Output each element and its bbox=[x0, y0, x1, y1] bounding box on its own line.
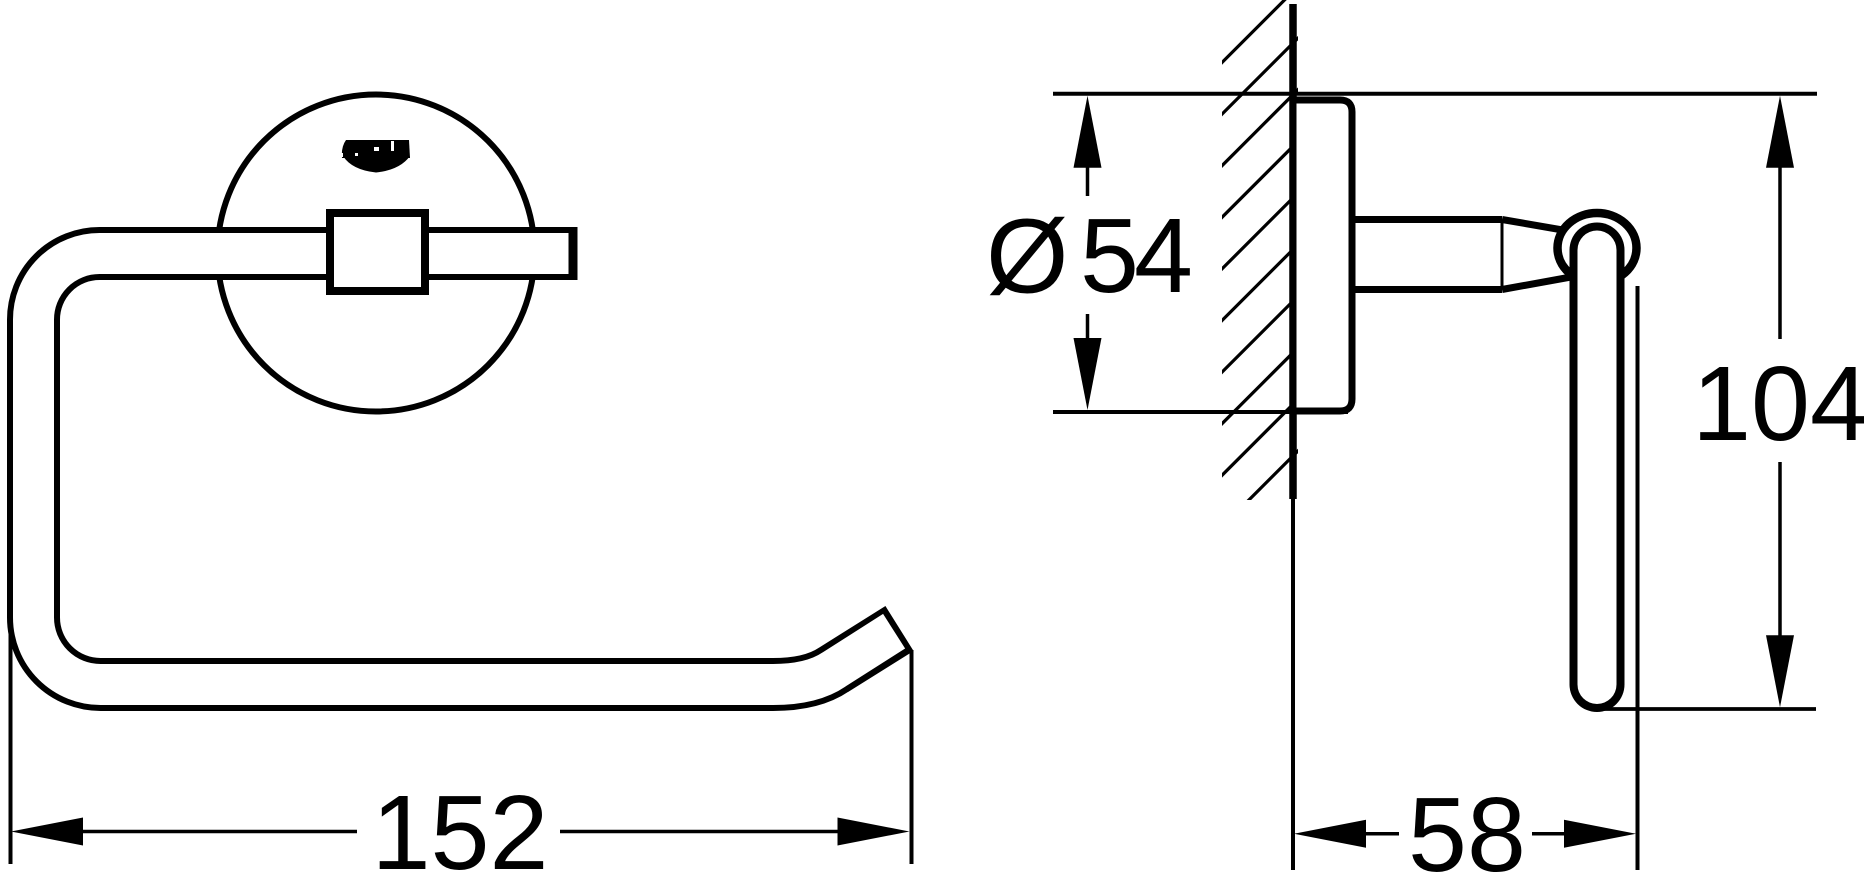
svg-text:58: 58 bbox=[1408, 776, 1526, 872]
holder arm tube white core (front view) bbox=[34, 254, 895, 685]
GROHE logo letter gaps bbox=[374, 147, 379, 151]
svg-text:104: 104 bbox=[1692, 345, 1864, 463]
dimension diameter 54: up arrowhead bbox=[1074, 96, 1102, 168]
wall extension line thin (to 58 dimension) bbox=[1291, 499, 1295, 870]
dimension 58: left shaft bbox=[1365, 832, 1399, 836]
hanging arm capsule white core (side view) bbox=[1578, 250, 1617, 685]
svg-text:54: 54 bbox=[1080, 197, 1190, 315]
dimension 152: left shaft bbox=[82, 830, 357, 834]
bottom extension line (104 dimension) bbox=[1600, 707, 1816, 711]
dimension 58: left arrowhead bbox=[1294, 820, 1366, 848]
dimension 152: left arrowhead bbox=[11, 818, 83, 846]
support post bottom edge (side view) bbox=[1352, 286, 1502, 293]
wall plate (side view) bbox=[1293, 100, 1352, 411]
cone top edge bbox=[1502, 220, 1580, 234]
dimension 104: upper shaft bbox=[1778, 160, 1782, 339]
svg-text:152: 152 bbox=[372, 774, 549, 872]
hanging arm capsule black (side view) bbox=[1570, 250, 1625, 685]
dimension 58: right shaft bbox=[1532, 832, 1566, 836]
dimension diameter 54: down arrowhead bbox=[1074, 338, 1102, 410]
square mount block (front view) bbox=[330, 213, 425, 291]
dimension 104: down arrowhead bbox=[1766, 635, 1794, 707]
support post top edge (side view) bbox=[1352, 216, 1502, 223]
dimension 104: up arrowhead bbox=[1766, 96, 1794, 168]
GROHE logo swoosh bbox=[343, 156, 410, 173]
svg-text:Ø: Ø bbox=[986, 198, 1068, 316]
dimension 152: right arrowhead bbox=[838, 818, 910, 846]
right extension line (58 dimension, knob tangent) bbox=[1636, 286, 1640, 870]
wall plate circle (front view) bbox=[218, 95, 535, 412]
bottom extension line (diameter 54) bbox=[1053, 410, 1348, 414]
wall line thick (side view) bbox=[1289, 4, 1297, 499]
dimension 152: left extension line bbox=[9, 630, 13, 864]
dimension 104: lower shaft bbox=[1778, 462, 1782, 640]
wall hatching (side view) bbox=[1215, 0, 1305, 586]
dimension diameter 54: upper shaft bbox=[1086, 160, 1090, 196]
dimension 58: right arrowhead bbox=[1564, 820, 1636, 848]
dimension 152: right extension line bbox=[910, 650, 914, 864]
cone bottom edge bbox=[1502, 275, 1582, 290]
post/cone divider line bbox=[1501, 221, 1504, 288]
holder arm tube outline (front view) bbox=[34, 254, 900, 685]
dimension 152: right shaft bbox=[560, 830, 839, 834]
dimension diameter 54: lower shaft bbox=[1086, 314, 1090, 360]
knob circle (side view) bbox=[1558, 213, 1637, 283]
top extension line (diameter 54 / 104) bbox=[1053, 92, 1817, 96]
GROHE logo text block bbox=[342, 140, 410, 158]
